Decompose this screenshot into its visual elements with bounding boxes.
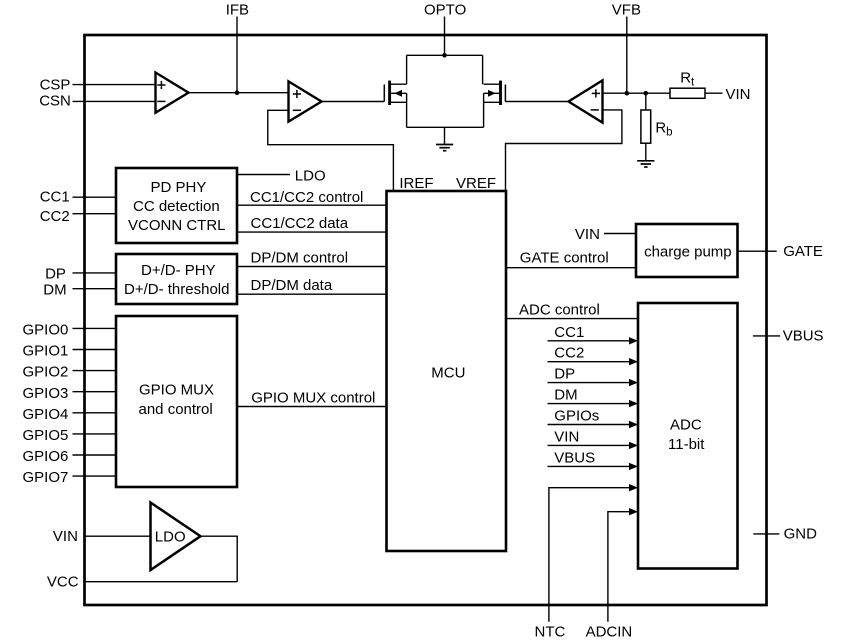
svg-text:GPIO6: GPIO6 [23, 448, 69, 465]
wire CC1/CC2 control [237, 189, 387, 206]
svg-text:VBUS: VBUS [783, 327, 824, 344]
wire CC2 [73, 213, 117, 215]
wire GATE output [738, 250, 777, 252]
ground below current mirror [436, 127, 453, 150]
svg-text:LDO: LDO [155, 529, 186, 546]
svg-text:GPIO5: GPIO5 [23, 427, 69, 444]
svg-text:DM: DM [554, 387, 577, 404]
svg-text:IFB: IFB [226, 1, 249, 18]
node OPTO junction dot [442, 53, 447, 58]
wire GND pin stub [753, 533, 779, 535]
wire CC1/CC2 data [237, 215, 387, 232]
wire DP/DM control [237, 250, 387, 267]
transistor Q1 (left MOSFET) [384, 81, 406, 105]
svg-text:CSP: CSP [40, 76, 71, 93]
svg-text:D+/D- threshold: D+/D- threshold [124, 281, 229, 298]
svg-text:ADC control: ADC control [519, 302, 600, 319]
svg-text:ADCIN: ADCIN [586, 624, 633, 641]
svg-text:VIN: VIN [554, 428, 579, 445]
block charge pump [636, 224, 738, 277]
wire CSP to op-amp U1 + [73, 84, 156, 86]
svg-text:D+/D- PHY: D+/D- PHY [141, 262, 216, 279]
svg-text:CC2: CC2 [40, 208, 70, 225]
svg-text:CC2: CC2 [554, 345, 584, 362]
wire GPIO1 [73, 349, 117, 351]
wire GPIO4 [73, 412, 117, 414]
svg-text:CC1: CC1 [40, 188, 70, 205]
wire U2 feedback to IREF [268, 110, 394, 191]
node IFB junction dot [235, 90, 240, 95]
wire GATE control [506, 249, 636, 267]
svg-text:NTC: NTC [535, 624, 566, 641]
node VFB junction dot [625, 91, 630, 96]
wire VBUS pin stub [753, 335, 780, 337]
wire CC1 to ADC [548, 324, 639, 345]
svg-text:OPTO: OPTO [424, 1, 466, 18]
wire GPIO5 [73, 433, 117, 435]
wire VIN to ADC [548, 428, 639, 449]
wire GPIO3 [73, 391, 117, 393]
svg-text:GATE: GATE [783, 243, 823, 260]
svg-text:VFB: VFB [612, 1, 641, 18]
svg-text:GPIO MUX: GPIO MUX [139, 382, 214, 399]
block ADC [638, 303, 738, 569]
resistor Rb [641, 93, 673, 143]
svg-text:11-bit: 11-bit [668, 436, 705, 453]
svg-text:R: R [655, 119, 666, 136]
pin IFB [226, 1, 249, 92]
transistor Q2 (right MOSFET) [484, 81, 506, 105]
svg-text:VCONN CTRL: VCONN CTRL [128, 217, 226, 234]
chip outer border [85, 35, 767, 605]
svg-text:GPIO2: GPIO2 [23, 364, 69, 381]
wire CC2 to ADC [548, 345, 639, 366]
wire VBUS to ADC [548, 449, 639, 470]
svg-text:GPIO1: GPIO1 [23, 343, 69, 360]
pin OPTO [424, 1, 466, 55]
svg-text:CC1/CC2 control: CC1/CC2 control [250, 189, 363, 206]
svg-text:VREF: VREF [456, 175, 496, 192]
svg-text:VCC: VCC [47, 573, 79, 590]
svg-text:CC1: CC1 [554, 324, 584, 341]
wire CSN to op-amp U1 - [73, 100, 156, 102]
svg-text:GPIO4: GPIO4 [23, 406, 69, 423]
svg-text:VIN: VIN [53, 528, 78, 545]
svg-text:VIN: VIN [575, 226, 600, 243]
svg-text:VBUS: VBUS [554, 449, 595, 466]
svg-text:IREF: IREF [399, 175, 433, 192]
wire CC1 [73, 196, 117, 198]
wire Q2 gate to op-amp U3 output [505, 101, 568, 103]
svg-text:GPIO MUX control: GPIO MUX control [251, 390, 375, 407]
svg-text:b: b [666, 126, 672, 138]
op-amp U3 error amplifier [569, 80, 603, 122]
svg-text:DP/DM data: DP/DM data [251, 277, 333, 294]
svg-text:GPIO7: GPIO7 [23, 469, 69, 486]
wire ADCIN to ADC [608, 508, 638, 622]
wire LDO stub from PD PHY [237, 174, 290, 176]
wire DM to ADC [548, 387, 639, 408]
resistor Rt [670, 70, 705, 99]
wire GPIO0 [73, 327, 117, 329]
svg-text:R: R [680, 70, 691, 87]
wire DP/DM data [237, 277, 387, 294]
svg-text:CSN: CSN [39, 93, 71, 110]
wire U1 output to U2 + input [189, 92, 289, 94]
wire GPIO6 [73, 454, 117, 456]
wire DM [73, 288, 117, 290]
svg-text:LDO: LDO [295, 168, 326, 185]
pin VFB [612, 1, 641, 93]
wire current mirror frame [407, 55, 484, 127]
wire GPIO2 [73, 370, 117, 372]
wire ADC control [506, 302, 638, 319]
wire U2 output to Q1 gate [322, 101, 385, 103]
wire DP [73, 272, 117, 274]
svg-text:CC detection: CC detection [133, 198, 220, 215]
svg-text:PD PHY: PD PHY [151, 179, 207, 196]
block MCU [387, 191, 507, 551]
op-amp U1 current sense [156, 73, 189, 113]
svg-text:GPIO0: GPIO0 [23, 322, 69, 339]
node divider junction dot [644, 91, 649, 96]
svg-text:DP: DP [45, 265, 66, 282]
op-amp U2 [289, 81, 322, 121]
svg-text:GND: GND [784, 525, 818, 542]
svg-text:GPIOs: GPIOs [554, 408, 599, 425]
wire GPIO7 [73, 475, 117, 477]
block GPIO MUX [116, 316, 237, 487]
svg-text:CC1/CC2 data: CC1/CC2 data [251, 215, 349, 232]
svg-text:DM: DM [43, 281, 66, 298]
wire GPIOs to ADC [548, 408, 639, 429]
svg-text:and control: and control [139, 401, 213, 418]
wire U3 + input to divider node [603, 92, 671, 94]
svg-text:GPIO3: GPIO3 [23, 385, 69, 402]
wire VIN to charge pump [604, 233, 636, 235]
svg-text:DP: DP [554, 366, 575, 383]
svg-text:ADC: ADC [670, 417, 702, 434]
svg-text:MCU: MCU [431, 365, 465, 382]
wire LDO output to VCC [201, 536, 238, 582]
ground below Rb [637, 143, 654, 167]
regulator LDO triangle [151, 503, 201, 571]
wire U3 - feedback to VREF [506, 110, 622, 191]
wire NTC to ADC [549, 484, 638, 622]
wire VCC [85, 581, 238, 583]
svg-text:DP/DM control: DP/DM control [251, 250, 349, 267]
wire VIN to LDO [85, 535, 151, 537]
block D+/D- PHY [116, 254, 237, 304]
svg-text:charge pump: charge pump [644, 243, 732, 260]
svg-text:GATE control: GATE control [520, 249, 609, 266]
wire Rt to VIN label [705, 92, 723, 94]
wire GPIO MUX control [237, 390, 387, 407]
wire DP to ADC [548, 366, 639, 387]
svg-text:VIN: VIN [726, 86, 751, 103]
block PD PHY [116, 168, 237, 243]
